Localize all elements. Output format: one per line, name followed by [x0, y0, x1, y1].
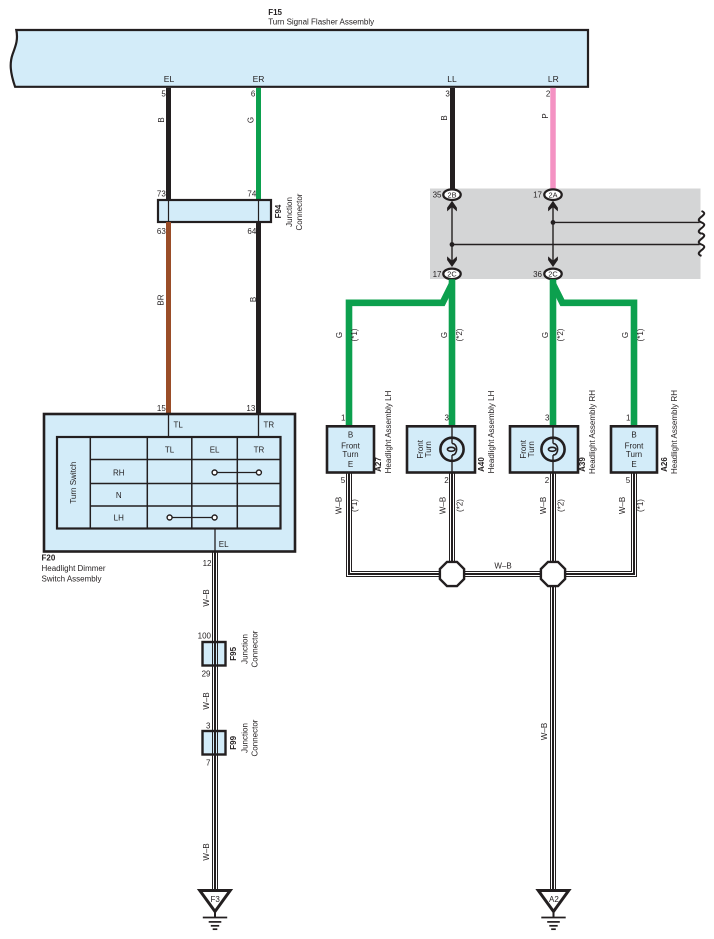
wire LL B black — [450, 88, 455, 190]
svg-text:F3: F3 — [211, 895, 221, 904]
svg-text:LH: LH — [114, 514, 124, 523]
svg-text:LL: LL — [447, 74, 457, 84]
svg-text:Connector: Connector — [295, 193, 304, 230]
svg-text:B: B — [249, 297, 258, 302]
svg-text:1: 1 — [626, 414, 631, 423]
svg-text:A39: A39 — [578, 457, 587, 472]
wire G to A39 — [550, 279, 557, 426]
junction connector F99 — [203, 731, 226, 755]
splice junction right — [541, 562, 565, 586]
svg-text:G: G — [335, 332, 344, 338]
svg-text:2: 2 — [546, 89, 551, 98]
svg-text:(*1): (*1) — [350, 328, 359, 341]
ground A2 — [538, 891, 568, 930]
svg-text:1: 1 — [341, 414, 346, 423]
svg-text:W–B: W–B — [539, 497, 548, 514]
twist mark upper — [699, 211, 704, 234]
svg-text:N: N — [116, 491, 122, 500]
svg-text:E: E — [348, 460, 353, 469]
svg-text:(*1): (*1) — [636, 499, 645, 512]
splice junction left — [440, 562, 464, 586]
svg-text:TL: TL — [174, 421, 184, 430]
svg-text:F20: F20 — [42, 554, 56, 563]
svg-text:13: 13 — [246, 404, 255, 413]
svg-text:W–B: W–B — [335, 497, 344, 514]
svg-text:5: 5 — [161, 89, 166, 98]
svg-text:63: 63 — [157, 227, 166, 236]
svg-text:(*2): (*2) — [557, 499, 566, 512]
twist mark lower — [699, 233, 704, 256]
svg-text:(*2): (*2) — [456, 499, 465, 512]
wire W-B to ground A2 — [552, 574, 554, 891]
svg-text:Turn Switch: Turn Switch — [69, 462, 78, 504]
wire B black — [256, 222, 261, 414]
svg-text:2C: 2C — [548, 270, 558, 279]
svg-text:64: 64 — [247, 227, 256, 236]
svg-text:12: 12 — [203, 559, 212, 568]
svg-text:Switch Assembly: Switch Assembly — [42, 575, 102, 584]
svg-text:Turn: Turn — [342, 450, 358, 459]
svg-text:15: 15 — [157, 404, 166, 413]
wire W-B F20 pin12 to ground F3 — [214, 552, 216, 891]
svg-text:2: 2 — [545, 476, 550, 485]
svg-text:Junction: Junction — [241, 723, 250, 753]
connector 2C right — [544, 269, 561, 280]
svg-text:EL: EL — [219, 540, 229, 549]
svg-text:Headlight Assembly LH: Headlight Assembly LH — [384, 390, 393, 473]
svg-text:3: 3 — [445, 414, 450, 423]
svg-text:G: G — [440, 332, 449, 338]
svg-text:2: 2 — [444, 476, 449, 485]
svg-text:(*1): (*1) — [350, 499, 359, 512]
svg-text:Connector: Connector — [251, 630, 260, 667]
svg-text:G: G — [621, 332, 630, 338]
svg-text:A40: A40 — [477, 457, 486, 472]
shield band — [430, 189, 701, 280]
lamp A27 Front Turn (Headlight Assembly LH) — [327, 426, 374, 472]
svg-text:ER: ER — [253, 74, 265, 84]
svg-text:B: B — [348, 431, 353, 440]
svg-text:100: 100 — [198, 632, 212, 641]
svg-text:Headlight Assembly RH: Headlight Assembly RH — [670, 390, 679, 474]
wire G branch to A27 — [349, 284, 452, 426]
svg-text:Turn: Turn — [527, 441, 536, 457]
wire EL B black — [166, 88, 171, 200]
svg-text:G: G — [541, 332, 550, 338]
svg-text:A2: A2 — [549, 895, 559, 904]
ground F3 — [200, 891, 230, 930]
relay F15 Turn Signal Flasher Assembly — [11, 8, 588, 87]
wire to twist right lower — [452, 244, 700, 246]
svg-text:EL: EL — [164, 74, 175, 84]
wire to twist right upper — [553, 221, 700, 223]
wire W-B lamp ground bus — [349, 473, 634, 575]
svg-text:2C: 2C — [447, 270, 457, 279]
svg-text:EL: EL — [210, 446, 220, 455]
connector 2C left — [443, 269, 460, 280]
svg-text:73: 73 — [157, 190, 166, 199]
lamp A40 Front Turn (Headlight Assembly LH) — [407, 426, 475, 472]
svg-text:6: 6 — [251, 89, 256, 98]
svg-text:3: 3 — [545, 414, 550, 423]
turn switch table — [57, 437, 281, 529]
svg-text:W–B: W–B — [202, 589, 211, 606]
arrow into 2C right — [548, 256, 558, 267]
svg-text:BR: BR — [156, 294, 165, 305]
svg-text:5: 5 — [626, 476, 631, 485]
node TR stub — [258, 414, 260, 437]
svg-text:A26: A26 — [660, 457, 669, 472]
svg-text:E: E — [631, 460, 636, 469]
svg-text:P: P — [541, 113, 550, 118]
svg-text:W–B: W–B — [540, 723, 549, 740]
lamp A26 Front Turn (Headlight Assembly RH) — [611, 426, 657, 472]
svg-text:W–B: W–B — [202, 692, 211, 709]
wire G to A40 — [449, 279, 456, 426]
svg-text:W–B: W–B — [202, 843, 211, 860]
svg-text:17: 17 — [533, 191, 542, 200]
svg-text:B: B — [157, 117, 166, 122]
switch F20 Headlight Dimmer Switch Assembly — [44, 414, 295, 552]
svg-text:36: 36 — [533, 270, 542, 279]
svg-text:17: 17 — [433, 270, 442, 279]
svg-text:TR: TR — [254, 446, 265, 455]
svg-text:TR: TR — [264, 421, 275, 430]
svg-text:W–B: W–B — [494, 562, 511, 571]
arrow into 2C left — [447, 256, 457, 267]
svg-text:29: 29 — [202, 670, 211, 679]
wire W-B from A40 — [451, 473, 453, 575]
svg-text:F99: F99 — [229, 735, 238, 749]
svg-text:Headlight Dimmer: Headlight Dimmer — [42, 564, 106, 573]
svg-text:G: G — [247, 117, 256, 123]
svg-text:Junction: Junction — [285, 197, 294, 227]
svg-text:(*2): (*2) — [556, 328, 565, 341]
lamp A39 Front Turn (Headlight Assembly RH) — [510, 426, 578, 472]
svg-text:TL: TL — [165, 446, 175, 455]
wire inside band 2A-2C — [552, 206, 554, 261]
svg-text:F94: F94 — [274, 204, 283, 218]
wire W-B from A39 — [552, 473, 554, 575]
node EL output stub — [214, 529, 216, 552]
wire BR brown — [166, 222, 171, 414]
svg-text:RH: RH — [113, 469, 125, 478]
junction connector F95 — [203, 642, 226, 666]
wire inside band 2B-2C — [451, 206, 453, 261]
svg-text:7: 7 — [206, 759, 211, 768]
svg-text:2A: 2A — [548, 190, 557, 199]
svg-text:5: 5 — [341, 476, 346, 485]
svg-text:(*1): (*1) — [636, 328, 645, 341]
svg-text:LR: LR — [548, 74, 559, 84]
arrow into 2B — [447, 201, 457, 212]
svg-text:B: B — [631, 431, 636, 440]
node TL stub — [168, 414, 170, 437]
arrow into 2A — [548, 201, 558, 212]
connector 2A — [544, 189, 561, 200]
svg-text:3: 3 — [445, 89, 450, 98]
svg-text:35: 35 — [433, 191, 442, 200]
svg-text:B: B — [440, 115, 449, 120]
svg-text:W–B: W–B — [618, 497, 627, 514]
svg-text:Connector: Connector — [251, 719, 260, 756]
svg-text:W–B: W–B — [439, 497, 448, 514]
wire ER G green — [256, 88, 261, 200]
svg-text:Turn: Turn — [626, 450, 642, 459]
contact RH: EL-TR — [217, 472, 257, 474]
svg-text:F95: F95 — [229, 646, 238, 660]
connector 2B — [443, 189, 460, 200]
svg-text:3: 3 — [206, 722, 211, 731]
svg-text:74: 74 — [247, 190, 256, 199]
wire G branch to A26 — [553, 284, 634, 426]
svg-text:A27: A27 — [374, 457, 383, 472]
svg-text:Junction: Junction — [241, 634, 250, 664]
svg-text:(*2): (*2) — [455, 328, 464, 341]
svg-text:F15: F15 — [268, 8, 282, 17]
svg-text:Headlight Assembly RH: Headlight Assembly RH — [588, 390, 597, 474]
contact LH: TL-EL — [172, 517, 212, 519]
svg-text:2B: 2B — [447, 190, 456, 199]
svg-text:Turn: Turn — [424, 441, 433, 457]
svg-text:Turn Signal Flasher Assembly: Turn Signal Flasher Assembly — [268, 18, 374, 27]
svg-text:Headlight Assembly LH: Headlight Assembly LH — [487, 390, 496, 473]
junction connector F94 — [158, 200, 271, 222]
wire LR P pink — [550, 88, 556, 190]
